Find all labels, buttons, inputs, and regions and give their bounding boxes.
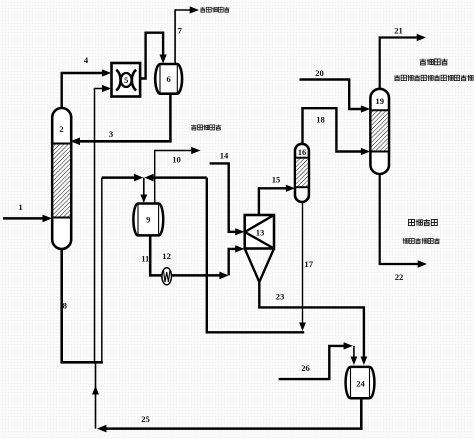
svg-text:12: 12 [162,251,171,261]
svg-text:24: 24 [356,379,365,389]
wire line 26 [279,342,358,379]
vessel 16 [295,144,309,202]
text rich diesel to [408,219,437,226]
svg-text:18: 18 [316,115,325,125]
svg-text:10: 10 [172,155,181,165]
svg-text:15: 15 [272,175,281,185]
wire line 14 [210,163,245,235]
svg-text:7: 7 [178,26,183,36]
wire line 8 (column bottoms) [62,249,103,362]
wire recycle line y332 [207,178,304,333]
pump 12 [162,268,172,285]
wire line 11 + pump feed [150,235,229,279]
svg-text:16: 16 [298,147,307,157]
svg-text:11: 11 [141,254,149,264]
column 2 (absorber) [52,108,71,249]
cone of separator 13 [245,249,274,283]
wire line 4 (column top to exchanger) [62,69,112,108]
svg-text:2: 2 [59,124,63,134]
separator 13 [245,215,274,249]
svg-text:3: 3 [109,129,113,139]
text to water wash unit [200,7,229,12]
wire line 10 (vessel 9 offgas) [155,147,201,203]
text purified tail gas [420,59,448,65]
svg-text:14: 14 [220,151,229,161]
svg-text:26: 26 [301,363,310,373]
svg-text:21: 21 [394,26,403,36]
vessel 9 [133,204,163,236]
text to gas system [191,125,221,131]
wire line 22 (rich diesel out) [380,174,427,268]
svg-text:22: 22 [395,272,404,282]
wire line 1 feed [3,215,52,223]
svg-text:8: 8 [63,301,68,311]
svg-text:9: 9 [146,215,150,225]
drum 6 [155,64,182,94]
svg-text:4: 4 [84,55,89,65]
vessel 19 [370,89,389,174]
wire line 20 [300,80,371,113]
text to blower inlet or catalytic stack [394,75,473,81]
wire exchanger outlet to drum 6 [140,33,167,79]
svg-text:19: 19 [375,96,384,106]
wire riser to valve line [101,178,103,363]
heat exchanger U5 [112,63,141,97]
svg-text:23: 23 [276,292,285,302]
wire second inlet to exchanger [95,85,112,362]
svg-text:25: 25 [141,414,150,424]
text diesel hydrotreating unit [403,238,440,244]
svg-text:1: 1 [18,202,22,212]
drum 24 [346,367,375,398]
wire line 15 (13 top to vessel 16) [259,185,295,215]
svg-text:20: 20 [315,68,324,78]
wire line 17 (16 bottom down) [299,203,306,331]
wire pump outlet up into separator 13 [229,245,245,275]
wire line 23 (cone bottom to drum 24) [259,282,367,365]
wire line 18 (16 top to 19) [303,108,371,155]
svg-text:13: 13 [256,228,265,238]
wire line 3 (drum 6 bottom to column 2) [71,94,171,145]
svg-text:5: 5 [124,75,128,85]
wire line 7 (drum 6 top offgas) [175,6,199,64]
svg-text:6: 6 [166,74,171,84]
svg-text:17: 17 [304,259,313,269]
wire line 25 (drum 24 bottom recycle) [92,362,361,432]
wire line 21 (purified gas) [380,34,426,89]
wire valve line to vessel 9 [102,174,207,203]
